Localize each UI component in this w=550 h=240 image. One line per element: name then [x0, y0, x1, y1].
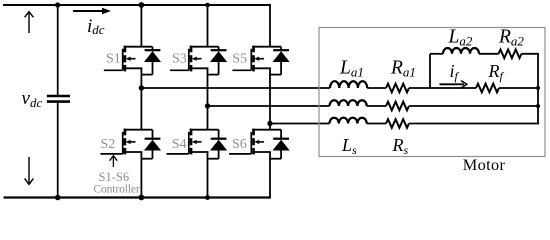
node bottom rail leg1: [139, 195, 145, 201]
node top rail leg2: [205, 3, 210, 8]
transistor S1 with diode: [104, 4, 161, 74]
wire cap top: [57, 5, 59, 95]
wire phase b to motor: [208, 105, 330, 107]
wire: [430, 53, 443, 55]
transistor S6 with diode: [229, 68, 290, 197]
wire: [367, 105, 386, 107]
inductor L_a2: [443, 48, 479, 54]
node top rail leg1: [139, 2, 145, 8]
wire field branch riser: [429, 54, 431, 88]
node phase a: [139, 85, 144, 90]
node phase b: [205, 103, 210, 108]
wire phase c to motor: [270, 123, 330, 125]
wire: [479, 53, 499, 55]
resistor R_a1: [386, 84, 409, 93]
resistor R_a2: [499, 50, 522, 59]
wire cap bottom: [57, 102, 59, 197]
wire top DC rail: [3, 4, 271, 6]
inductor L_a1: [330, 81, 367, 88]
wire: [409, 123, 539, 125]
node cap bottom junction: [55, 195, 61, 201]
inductor L_b: [330, 100, 367, 106]
svg-text:S6: S6: [232, 137, 247, 152]
node bottom rail leg2: [205, 195, 210, 200]
motor box: [319, 28, 545, 157]
svg-text:S4: S4: [172, 137, 187, 152]
transistor S4 with diode: [167, 68, 228, 197]
transistor S3 with diode: [170, 4, 227, 74]
inductor L_s: [330, 118, 367, 124]
resistor R_s: [386, 119, 409, 128]
wire phase a to motor: [141, 87, 330, 89]
svg-text:Controller: Controller: [93, 183, 139, 196]
wire: [367, 87, 386, 89]
node bus phase a: [536, 86, 540, 90]
cap plate bottom: [47, 100, 70, 103]
node cap top junction: [55, 2, 60, 7]
svg-text:Motor: Motor: [463, 155, 506, 174]
svg-text:S1: S1: [106, 52, 121, 67]
arrow i_f: [440, 83, 465, 85]
node bus phase b: [536, 104, 540, 108]
arrow controller to S2 gate: [110, 156, 118, 167]
arrow up (dc source current in): [25, 12, 34, 33]
wire bottom DC rail: [4, 196, 271, 198]
wire: [499, 87, 539, 89]
svg-text:S5: S5: [232, 52, 247, 67]
arrow down (dc source current out): [25, 157, 34, 184]
wire neutral bus: [537, 54, 539, 125]
wire: [367, 123, 386, 125]
transistor S5 with diode: [232, 4, 289, 74]
svg-text:S2: S2: [101, 137, 116, 152]
resistor R_b: [386, 102, 409, 111]
arrow i_dc: [73, 10, 103, 12]
wire: [409, 87, 476, 89]
transistor S2 with diode: [100, 68, 161, 197]
cap plate top: [47, 95, 70, 98]
capacitor C (dc link): [47, 5, 70, 198]
resistor R_f: [476, 84, 499, 93]
wire: [409, 105, 539, 107]
node phase c: [267, 121, 272, 126]
svg-text:S3: S3: [172, 52, 187, 67]
wire: [522, 53, 539, 55]
